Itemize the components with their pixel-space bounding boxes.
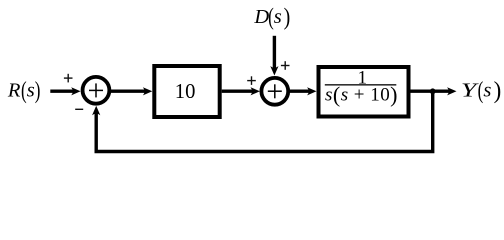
wire D(s) down to S2 [273, 36, 276, 69]
svg-text:s: s [274, 6, 282, 28]
wire G2 to output Y(s) [411, 89, 450, 92]
node R(s) input label [7, 76, 41, 104]
arrowhead into S2 from top [270, 66, 278, 75]
svg-text:R: R [7, 80, 21, 102]
svg-text:): ) [494, 77, 502, 104]
summing junction S2 [261, 78, 288, 105]
node D(s) disturbance label [253, 2, 290, 30]
plus sign at S2 left input [247, 76, 256, 85]
svg-text:10: 10 [175, 81, 196, 103]
takeoff node junction dot [430, 88, 436, 94]
block G2 plant 1/(s(s+10)) [319, 67, 409, 117]
wire S2 to block G2 [289, 89, 309, 92]
wire G1 to summing junction S2 [222, 89, 253, 92]
svg-text:s: s [483, 80, 491, 102]
arrowhead into S1 from below [92, 106, 100, 115]
minus sign at S1 feedback input [75, 108, 83, 110]
svg-text:s: s [27, 80, 35, 102]
arrowhead into G2 [307, 87, 316, 95]
svg-text:): ) [284, 2, 291, 29]
arrowhead into S2 [251, 87, 260, 95]
fraction bar [325, 84, 397, 85]
plus sign at S2 top input [281, 61, 290, 70]
svg-text:): ) [35, 76, 41, 104]
arrowhead into G1 [143, 87, 152, 95]
wire S1 to block G1 [110, 89, 145, 92]
svg-text:D: D [253, 6, 269, 28]
feedback wire from takeoff node down, across, and up to S1 [96, 91, 433, 151]
arrowhead into S1 [71, 87, 80, 95]
node Y(s) output label [461, 76, 501, 104]
summing junction S1 [83, 77, 110, 104]
block G1 gain 10 [154, 66, 219, 117]
svg-text:s(s + 10): s(s + 10) [325, 82, 398, 107]
wire R(s) to summing junction S1 [50, 89, 73, 92]
plus sign at S1 input (from R) [64, 74, 73, 83]
arrowhead to Y(s) [447, 87, 456, 95]
